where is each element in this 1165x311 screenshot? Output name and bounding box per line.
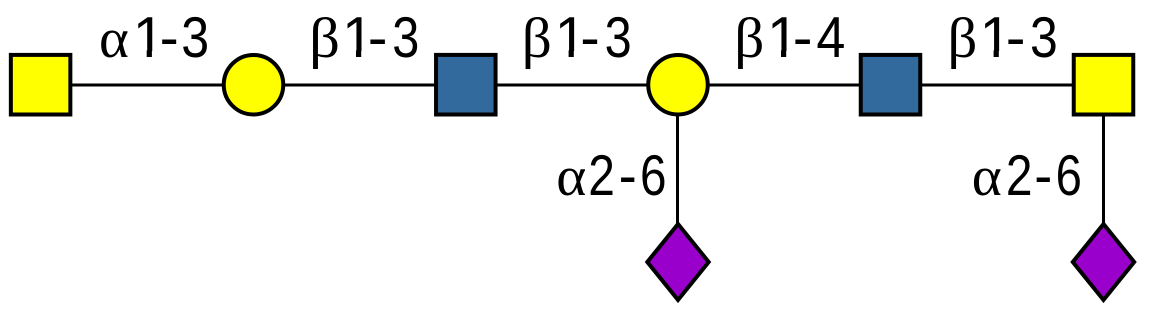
svg-text:-: - (1006, 6, 1026, 70)
svg-text:3: 3 (392, 6, 419, 70)
svg-text:β: β (734, 6, 764, 70)
svg-text:-: - (368, 6, 388, 70)
svg-text:β: β (948, 6, 978, 70)
svg-text:4: 4 (816, 5, 845, 70)
svg-text:α: α (99, 7, 129, 70)
svg-text:3: 3 (605, 6, 632, 70)
svg-text:3: 3 (1030, 6, 1058, 70)
svg-text:α: α (972, 145, 1002, 208)
svg-text:3: 3 (181, 6, 209, 70)
svg-text:6: 6 (640, 144, 667, 208)
svg-text:-: - (1034, 144, 1052, 208)
svg-text:β: β (309, 7, 340, 70)
svg-text:β: β (522, 6, 552, 70)
svg-text:-: - (793, 6, 813, 70)
svg-text:2: 2 (1006, 144, 1033, 208)
svg-text:6: 6 (1056, 144, 1082, 208)
svg-text:-: - (619, 143, 637, 208)
svg-text:α: α (556, 145, 586, 208)
svg-text:-: - (580, 6, 600, 70)
svg-text:2: 2 (588, 144, 615, 208)
svg-text:-: - (160, 6, 179, 70)
